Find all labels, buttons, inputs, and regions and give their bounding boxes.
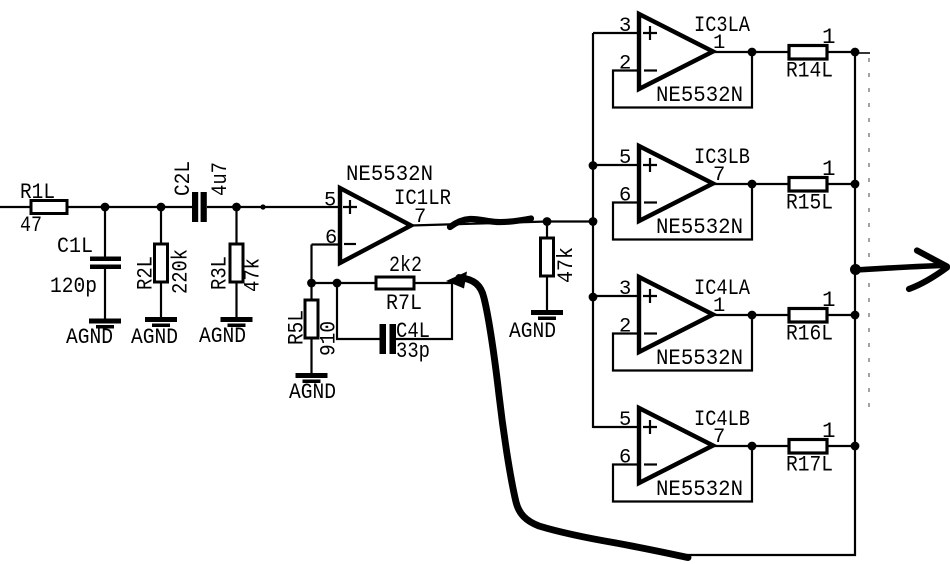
node output junction (IC3LB) bbox=[748, 180, 757, 189]
op-amp IC4LA bbox=[639, 277, 713, 352]
svg-text:1: 1 bbox=[822, 287, 836, 313]
wire pin 5 stub (IC3LB) bbox=[593, 164, 639, 166]
wire R16L to bus bbox=[827, 314, 855, 316]
op-amp IC1LR bbox=[340, 188, 411, 263]
wire node A to R7L bbox=[312, 282, 377, 284]
svg-text:NE5532N: NE5532N bbox=[656, 476, 743, 502]
wire R15L to bus bbox=[827, 183, 855, 185]
resistor R14L bbox=[789, 46, 827, 60]
wire node B down bbox=[336, 283, 338, 340]
svg-text:220k: 220k bbox=[168, 249, 194, 294]
svg-text:C2L: C2L bbox=[170, 161, 196, 196]
minus symbol IC4LA bbox=[644, 332, 657, 334]
node stub dot bbox=[260, 204, 265, 209]
wire output pin 7 bbox=[411, 222, 593, 226]
svg-text:47: 47 bbox=[20, 212, 42, 238]
minus symbol IC1LR bbox=[344, 243, 356, 245]
capacitor C4L bbox=[380, 324, 387, 354]
wire C1L to ground bbox=[104, 269, 106, 319]
wire feedback loop (IC3LA) bbox=[613, 52, 752, 108]
ground AGND (R5L) bbox=[296, 373, 328, 378]
svg-text:R5L: R5L bbox=[284, 310, 310, 345]
svg-text:IC3LB: IC3LB bbox=[694, 144, 750, 170]
svg-text:R1L: R1L bbox=[20, 179, 55, 205]
wire output (IC3LA) bbox=[713, 51, 789, 53]
svg-text:R7L: R7L bbox=[386, 290, 422, 316]
node output junction (IC4LB) bbox=[748, 442, 757, 451]
svg-text:3: 3 bbox=[619, 15, 631, 38]
hand-drawn stroke over output wire bbox=[450, 219, 531, 228]
capacitor C2L bbox=[192, 192, 198, 222]
ground AGND (47k) bbox=[531, 310, 563, 315]
ground AGND (R2L) bbox=[145, 317, 177, 322]
svg-text:1: 1 bbox=[822, 24, 836, 50]
node bus junction (R15L) bbox=[851, 180, 860, 189]
hand-drawn curve to output bus bbox=[459, 278, 688, 558]
node bus junction (R16L) bbox=[851, 311, 860, 320]
capacitor C1L bbox=[90, 257, 121, 262]
resistor R2L bbox=[155, 244, 168, 282]
wire R2L to ground bbox=[160, 282, 162, 318]
wire output (IC4LA) bbox=[713, 314, 789, 316]
svg-text:AGND: AGND bbox=[131, 324, 178, 350]
wire output (IC3LB) bbox=[713, 183, 789, 185]
svg-text:4u7: 4u7 bbox=[207, 162, 233, 196]
minus symbol IC3LB bbox=[644, 201, 657, 203]
wire right corner down bbox=[451, 282, 453, 340]
resistor R17L bbox=[789, 440, 827, 454]
node bus junction signal in bbox=[589, 217, 598, 226]
hand-drawn arrow head upper barb bbox=[917, 251, 947, 267]
wire down to 47k resistor bbox=[546, 222, 548, 239]
plus symbol IC1LR bbox=[343, 200, 357, 214]
svg-text:R3L: R3L bbox=[207, 256, 233, 290]
svg-text:AGND: AGND bbox=[199, 323, 246, 349]
svg-text:1: 1 bbox=[822, 418, 836, 444]
node junction at R3L tap bbox=[232, 203, 241, 212]
plus symbol IC3LB bbox=[643, 158, 657, 172]
wire R7L to right corner bbox=[414, 282, 453, 284]
node junction at R2L tap bbox=[157, 203, 166, 212]
op-amp IC3LA bbox=[639, 14, 713, 89]
resistor R16L bbox=[789, 309, 827, 323]
wire down to R3L bbox=[235, 207, 237, 244]
node junction at C1L tap bbox=[101, 203, 110, 212]
wire 47k to ground bbox=[546, 276, 548, 311]
svg-text:47k: 47k bbox=[240, 258, 266, 292]
wire C4L to right corner bbox=[396, 338, 453, 340]
svg-text:6: 6 bbox=[619, 185, 631, 208]
wire down to R2L bbox=[160, 207, 162, 244]
svg-text:C1L: C1L bbox=[57, 233, 93, 259]
resistor R15L bbox=[789, 178, 827, 192]
plus symbol IC4LB bbox=[643, 420, 657, 434]
plus symbol IC4LA bbox=[643, 289, 657, 303]
svg-text:1: 1 bbox=[822, 156, 836, 182]
svg-text:33p: 33p bbox=[396, 338, 430, 364]
wire to C4L bbox=[336, 338, 380, 340]
resistor 47k load bbox=[541, 238, 554, 276]
node bus junction IC3LB bbox=[589, 161, 598, 170]
wire R14L to bus bbox=[827, 51, 855, 53]
svg-text:120p: 120p bbox=[50, 273, 97, 299]
wire R3L to ground bbox=[235, 282, 237, 318]
svg-text:2: 2 bbox=[619, 53, 631, 76]
svg-text:6: 6 bbox=[619, 447, 631, 470]
node bus junction (R17L) bbox=[851, 442, 860, 451]
dashed boundary line bbox=[868, 58, 870, 418]
node bus junction IC4LA bbox=[589, 293, 598, 302]
wire pin 5 stub (IC4LB) bbox=[593, 426, 639, 428]
ground AGND (R3L) bbox=[221, 317, 253, 322]
minus symbol IC4LB bbox=[644, 463, 657, 465]
node feedback A bbox=[307, 279, 316, 288]
svg-text:2: 2 bbox=[619, 316, 631, 339]
svg-text:AGND: AGND bbox=[509, 318, 556, 344]
hand-drawn arrow head lower barb bbox=[909, 268, 947, 290]
svg-text:NE5532N: NE5532N bbox=[346, 161, 433, 187]
hand-drawn arrow tail blob bbox=[850, 264, 861, 275]
resistor R7L bbox=[376, 277, 414, 289]
wire C2L to pin 5 bbox=[207, 206, 340, 208]
svg-text:6: 6 bbox=[325, 227, 337, 250]
svg-text:2k2: 2k2 bbox=[389, 252, 422, 278]
wire feedback loop (IC3LB) bbox=[613, 184, 752, 240]
wire output bus right bbox=[686, 52, 855, 555]
node output junction (IC4LA) bbox=[748, 311, 757, 320]
svg-text:NE5532N: NE5532N bbox=[656, 345, 743, 371]
wire down to C1L bbox=[104, 207, 106, 257]
resistor R3L bbox=[230, 244, 243, 282]
wire R17L to bus bbox=[827, 445, 855, 447]
svg-text:IC4LB: IC4LB bbox=[694, 406, 750, 432]
node feedback B bbox=[333, 279, 342, 288]
wire pin 6 stub bbox=[312, 243, 341, 245]
svg-text:AGND: AGND bbox=[289, 379, 336, 405]
wire pin 3 stub (IC3LA) bbox=[593, 32, 639, 34]
svg-text:AGND: AGND bbox=[66, 324, 113, 350]
svg-text:R17L: R17L bbox=[786, 452, 833, 478]
op-amp IC4LB bbox=[639, 408, 713, 483]
svg-text:IC4LA: IC4LA bbox=[694, 275, 750, 301]
wire input left to R1L bbox=[0, 206, 31, 208]
svg-text:5: 5 bbox=[619, 409, 631, 432]
minus symbol IC3LA bbox=[644, 69, 657, 71]
svg-text:47k: 47k bbox=[553, 247, 579, 283]
plus symbol IC3LA bbox=[643, 26, 657, 40]
node bus junction (R14L) bbox=[851, 48, 860, 57]
hand-drawn arrowhead at feedback node bbox=[446, 272, 467, 289]
hand-drawn arrow shaft bbox=[856, 266, 941, 271]
svg-text:NE5532N: NE5532N bbox=[656, 214, 743, 240]
wire pin 3 stub (IC4LA) bbox=[593, 295, 639, 297]
svg-text:IC1LR: IC1LR bbox=[394, 185, 451, 211]
svg-text:R16L: R16L bbox=[786, 321, 833, 347]
wire feedback loop (IC4LB) bbox=[613, 446, 752, 502]
wire R5L to ground bbox=[310, 338, 312, 374]
op-amp IC3LB bbox=[639, 146, 713, 221]
svg-text:R2L: R2L bbox=[133, 256, 159, 290]
wire R5L top bbox=[310, 283, 312, 300]
svg-text:5: 5 bbox=[324, 190, 336, 213]
svg-text:NE5532N: NE5532N bbox=[656, 82, 743, 108]
ground AGND (C1L) bbox=[89, 319, 121, 324]
svg-text:R15L: R15L bbox=[786, 190, 833, 216]
node output junction (IC3LA) bbox=[748, 48, 757, 57]
svg-text:R14L: R14L bbox=[786, 58, 833, 84]
wire feedback loop (IC4LA) bbox=[613, 315, 752, 371]
wire output (IC4LB) bbox=[713, 445, 789, 447]
resistor R5L bbox=[305, 300, 318, 338]
wire R1L to C2L bbox=[67, 206, 193, 208]
wire stub right of R14L junction bbox=[855, 52, 870, 54]
wire pin 6 down to feedback node bbox=[310, 245, 312, 285]
resistor R1L bbox=[31, 201, 67, 214]
svg-text:910: 910 bbox=[316, 321, 342, 356]
svg-text:3: 3 bbox=[619, 278, 631, 301]
node output junction bbox=[543, 217, 552, 226]
wire buffer input bus bbox=[592, 33, 594, 428]
svg-text:5: 5 bbox=[619, 147, 631, 170]
svg-text:IC3LA: IC3LA bbox=[694, 12, 750, 38]
